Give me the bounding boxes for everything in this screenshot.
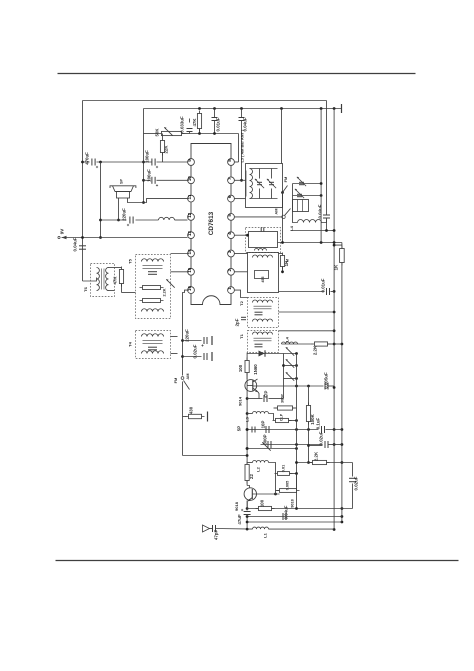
- capacitor 100uF pin10: [151, 177, 153, 184]
- resistor 47K top: [199, 111, 201, 132]
- wire q2 rail: [246, 456, 248, 465]
- svg-text:AM: AM: [185, 373, 190, 380]
- IC pins right 8-1: [228, 159, 235, 166]
- svg-text:9018: 9018: [291, 499, 295, 507]
- ceramic filter 455 box: [248, 253, 279, 293]
- svg-text:47pF: 47pF: [214, 530, 219, 541]
- svg-text:CD7613: CD7613: [208, 211, 215, 235]
- wire osc bottom: [291, 230, 332, 232]
- svg-text:T1: T1: [239, 333, 244, 338]
- svg-text:L2: L2: [256, 466, 261, 471]
- svg-text:16: 16: [187, 286, 192, 292]
- trimmer arrow T5: [166, 279, 174, 287]
- L5 coil: [250, 169, 253, 199]
- svg-text:FM: FM: [283, 176, 288, 182]
- svg-text:FM: FM: [173, 377, 178, 383]
- svg-text:0.005uF: 0.005uF: [324, 372, 329, 389]
- wire outer box top: [83, 100, 327, 102]
- svg-text:0.04uF: 0.04uF: [73, 237, 78, 251]
- svg-text:CLP: CLP: [280, 413, 284, 421]
- svg-text:50K: 50K: [155, 128, 160, 137]
- wire speaker left terminal: [118, 198, 120, 220]
- FM tuning cap 2: [293, 195, 322, 197]
- switch S1b FM/AM: [181, 377, 184, 380]
- svg-text:12: 12: [187, 212, 192, 218]
- wire Q1 rail down: [246, 399, 248, 456]
- svg-text:9014: 9014: [238, 396, 243, 406]
- wire filter out: [279, 291, 325, 293]
- svg-text:0.01uF: 0.01uF: [321, 278, 326, 292]
- node top-rail junctions: [198, 107, 201, 110]
- svg-text:22K: 22K: [164, 145, 169, 154]
- wire T6 feed: [83, 278, 97, 282]
- capacitor 300P b: [267, 441, 269, 448]
- wire Q2 emitter: [248, 498, 253, 502]
- wire pin4 to filter: [235, 234, 248, 236]
- wire det row: [247, 353, 296, 355]
- svg-text:0.02uF: 0.02uF: [193, 344, 198, 358]
- wire AGC bottom run: [183, 455, 248, 457]
- svg-text:0.01: 0.01: [282, 465, 286, 472]
- wire row 516: [247, 516, 342, 518]
- svg-text:100uF: 100uF: [147, 169, 152, 182]
- svg-text:22: 22: [249, 474, 254, 479]
- capacitor 220uF output: [129, 217, 131, 224]
- capacitor 0.02uF decouple: [183, 356, 202, 358]
- capacitor 470uF left rail: [91, 159, 93, 166]
- svg-text:430: 430: [189, 406, 194, 414]
- wire pin2 to filter: [235, 271, 248, 273]
- svg-text:9V: 9V: [60, 229, 65, 235]
- transformer T2: [248, 298, 279, 328]
- wire pin10 feed: [144, 179, 151, 181]
- resistor 1K right rail: [341, 246, 343, 266]
- svg-text:10P: 10P: [261, 421, 266, 429]
- svg-text:0.04uF: 0.04uF: [318, 204, 323, 218]
- svg-text:0.02uF: 0.02uF: [319, 431, 324, 445]
- wire 47K to T5: [121, 284, 123, 293]
- wire row 448: [247, 448, 296, 450]
- resistor 22K: [162, 138, 164, 156]
- feedback cap 0.01: [275, 473, 293, 475]
- wire right rail B (x=320.6): [320, 109, 322, 197]
- wire q2 base out: [252, 493, 279, 495]
- inductor L2: [247, 462, 252, 464]
- wire Vcc right corner: [341, 243, 343, 246]
- resistor CLP: [273, 420, 292, 422]
- svg-text:100: 100: [238, 364, 243, 372]
- wire pin7 to L5: [235, 179, 246, 181]
- capacitor 0.1uF: [321, 426, 323, 433]
- svg-text:9: 9: [187, 159, 192, 162]
- wire row 508: [247, 508, 352, 510]
- page bottom rule: [56, 560, 459, 562]
- resistor 22: [246, 462, 248, 484]
- capacitor 0.005uF: [324, 383, 326, 390]
- svg-text:4: 4: [227, 232, 232, 235]
- wire Q1 collector out: [253, 379, 258, 382]
- capacitor 0.01uF det: [326, 288, 328, 295]
- svg-text:9018: 9018: [234, 501, 239, 511]
- wire bar-antenna drop: [281, 109, 283, 164]
- svg-text:15: 15: [187, 267, 192, 273]
- capacitor 47uF: [244, 511, 251, 513]
- inductor output bead: [159, 217, 175, 220]
- potentiometer 50K: [159, 133, 185, 135]
- wire row 462: [297, 462, 353, 464]
- transformer T6: [91, 264, 115, 297]
- svg-text:100uF: 100uF: [145, 150, 150, 163]
- svg-text:47uF: 47uF: [237, 514, 242, 525]
- capacitor 220uF decouple: [183, 340, 202, 342]
- filter 10.7M dashed box: [246, 228, 281, 253]
- capacitor 47P q1: [247, 398, 262, 400]
- wire T5 to pin14: [171, 253, 188, 255]
- resistor 2.2K osc: [310, 462, 330, 464]
- wire row 529 antenna: [210, 528, 213, 530]
- capacitor 0.02uF b: [324, 441, 326, 448]
- svg-text:0.02uF: 0.02uF: [354, 476, 359, 490]
- svg-text:T5: T5: [128, 258, 133, 263]
- resistor 100K: [308, 403, 310, 425]
- svg-text:5P: 5P: [237, 426, 242, 431]
- svg-text:L5 ( AM Bar ANT ): L5 ( AM Bar ANT ): [240, 129, 245, 162]
- inductor L5 AM bar antenna box: [246, 164, 283, 208]
- svg-text:220uF: 220uF: [185, 329, 190, 342]
- wire pin16 rail x182: [183, 290, 188, 375]
- wire row 429: [247, 429, 318, 431]
- wire join to pin8: [238, 134, 240, 163]
- svg-text:47K: 47K: [192, 118, 197, 127]
- resistor 1K filter: [279, 253, 283, 255]
- FM tuning cap 1: [293, 183, 322, 185]
- wire right rail A (x=326): [326, 101, 328, 215]
- svg-text:11: 11: [187, 194, 192, 199]
- IC pins left 9-16: [188, 159, 195, 166]
- wire T6 secondary top: [108, 267, 122, 269]
- resistor 300P: [275, 407, 296, 409]
- capacitor 0.04uF supply: [79, 245, 86, 247]
- svg-text:455: 455: [261, 277, 265, 283]
- wire 47K/0.01uF join: [190, 133, 239, 135]
- wire FM osc block: [292, 184, 294, 212]
- wire rail A to main rail: [332, 230, 335, 232]
- tuning gang rail: [283, 354, 285, 379]
- inductor L4 osc: [298, 220, 322, 223]
- wire T1 out: [279, 330, 335, 332]
- svg-text:2.2K: 2.2K: [314, 451, 319, 461]
- wire T4 stubs: [171, 336, 178, 338]
- transformer T4: [136, 331, 171, 359]
- avc rail x308: [308, 386, 310, 463]
- svg-text:2.2K: 2.2K: [313, 345, 318, 355]
- svg-text:47K: 47K: [113, 276, 118, 285]
- svg-text:3: 3: [227, 250, 232, 253]
- wire Vcc right run: [278, 242, 342, 244]
- node rail junctions x333.6: [333, 244, 336, 247]
- resistor 430: [183, 416, 187, 418]
- svg-text:0.04uF: 0.04uF: [243, 117, 248, 131]
- capacitor 10P: [265, 426, 267, 433]
- speaker SP: [110, 186, 136, 188]
- svg-text:0.04uF: 0.04uF: [284, 505, 289, 519]
- inductor L1: [253, 527, 269, 529]
- capacitor 0.04uF rail A: [323, 214, 330, 216]
- resistor 100 q2: [256, 508, 275, 510]
- svg-text:470uF: 470uF: [85, 152, 90, 165]
- svg-text:5: 5: [227, 214, 232, 217]
- transistor Q1 9014: [245, 380, 257, 392]
- wire row 444: [261, 444, 323, 446]
- wire top supply rail: [144, 108, 342, 110]
- wire row 445 right: [309, 445, 323, 447]
- svg-text:1N60: 1N60: [253, 364, 258, 375]
- svg-text:220uF: 220uF: [122, 208, 127, 221]
- inductor L3: [247, 413, 252, 415]
- svg-text:1: 1: [227, 287, 232, 290]
- wire T2 out: [279, 311, 335, 313]
- capacitor 0.04uF row516: [282, 513, 284, 520]
- svg-text:2pF: 2pF: [235, 318, 240, 326]
- wire T6 sec bottom: [108, 290, 115, 292]
- capacitor 0.01uF top: [212, 117, 218, 119]
- switch blade AM: [285, 209, 291, 216]
- capacitor 5P: [251, 427, 253, 433]
- wire outer box left rail: [82, 101, 84, 282]
- transistor Q2 9018: [244, 488, 256, 500]
- svg-text:10: 10: [187, 176, 192, 182]
- gang section arrows: [284, 365, 297, 367]
- page top rule: [58, 73, 416, 75]
- resistor 2.2K rf: [312, 343, 331, 345]
- wire pot drop x143: [143, 109, 145, 203]
- svg-text:1K: 1K: [334, 264, 339, 270]
- wire det out row 385.5: [297, 385, 324, 387]
- wire q2 to 47pF: [246, 501, 248, 511]
- antenna ANT: [203, 525, 210, 532]
- wire main right rail (x=333.6): [333, 109, 335, 530]
- resistor 100 rf: [246, 358, 248, 376]
- FM coil former box: [293, 200, 309, 212]
- wire 9V supply: [62, 237, 188, 239]
- svg-text:6: 6: [227, 195, 232, 198]
- diode 1N60: [259, 351, 265, 357]
- node rail junctions x341.4: [341, 343, 344, 346]
- svg-text:L4: L4: [289, 225, 294, 230]
- wire speaker return rail x100: [100, 162, 102, 238]
- svg-text:T6: T6: [83, 286, 88, 291]
- svg-text:8: 8: [227, 159, 232, 162]
- wire row 521.5: [247, 521, 342, 523]
- svg-text:100K: 100K: [310, 413, 315, 424]
- svg-text:L4: L4: [285, 336, 290, 341]
- terminal 9V arrow: [62, 236, 67, 240]
- svg-text:T2: T2: [239, 300, 244, 305]
- svg-text:1K: 1K: [284, 260, 289, 266]
- svg-text:0.033uF: 0.033uF: [180, 116, 185, 133]
- svg-text:T4: T4: [128, 341, 133, 346]
- wire speaker to pin11: [128, 198, 188, 203]
- svg-text:0.005: 0.005: [286, 481, 290, 491]
- wire pin6 to L5: [235, 198, 246, 200]
- svg-text:14: 14: [187, 249, 192, 255]
- svg-text:L3: L3: [245, 416, 250, 421]
- svg-text:SP: SP: [120, 179, 124, 185]
- feedback cap 0.005: [277, 490, 300, 492]
- wire 1K branch rail (x=341.4): [334, 245, 342, 248]
- svg-text:2: 2: [227, 268, 232, 271]
- wire pin9 feed: [83, 161, 90, 163]
- capacitor 0.04uF pin8: [239, 117, 245, 119]
- wire T1 bottom drop: [246, 353, 248, 361]
- svg-text:L1: L1: [263, 532, 268, 537]
- audio rail x296: [296, 354, 298, 509]
- L5 tuning caps: [250, 168, 278, 170]
- svg-text:100: 100: [260, 499, 265, 507]
- svg-text:0.01uF: 0.01uF: [216, 117, 221, 131]
- svg-text:47P: 47P: [264, 391, 269, 399]
- wire pot left: [144, 133, 159, 135]
- svg-text:AM: AM: [274, 208, 279, 215]
- svg-text:13: 13: [187, 231, 192, 237]
- resistor 47K if: [121, 267, 123, 287]
- transformer T5: [136, 255, 171, 319]
- capacitor 100uF volume: [151, 159, 153, 166]
- wire band switch rail: [282, 193, 284, 243]
- wire row 343.5 L4: [282, 343, 313, 345]
- wire pin5 to band switch: [235, 216, 282, 218]
- rail x352 with 0.02uF: [352, 463, 354, 477]
- capacitor ant 47pF: [212, 525, 214, 532]
- svg-text:7: 7: [227, 177, 232, 180]
- svg-text:2.2K: 2.2K: [163, 288, 167, 296]
- wire Q1 emitter: [253, 388, 258, 392]
- svg-text:0.1uF: 0.1uF: [316, 417, 321, 429]
- op-amp U1 CD7613 body: [191, 144, 231, 305]
- wire T5 to pin15: [171, 271, 188, 273]
- wire pin3 to filter: [235, 253, 248, 255]
- wire pin12 feed: [101, 219, 127, 221]
- terminal tick top right: [341, 104, 343, 113]
- wire pin1 to T2: [235, 290, 248, 297]
- transformer T1: [248, 331, 279, 353]
